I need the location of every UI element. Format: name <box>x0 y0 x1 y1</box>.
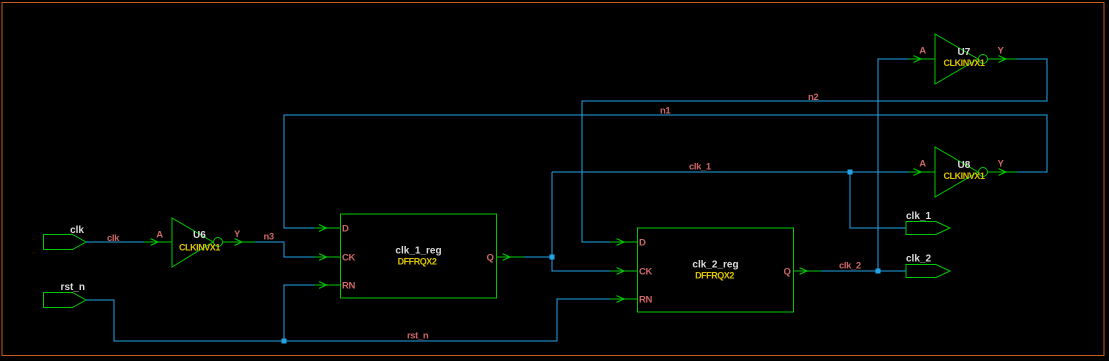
U7 output bubble <box>979 55 988 64</box>
svg-text:RN: RN <box>342 281 355 292</box>
svg-text:n2: n2 <box>808 92 818 103</box>
svg-text:clk_2: clk_2 <box>906 254 931 265</box>
svg-text:CLKINVX1: CLKINVX1 <box>944 171 985 181</box>
input port rst_n <box>44 282 87 308</box>
output port clk_1 <box>906 211 950 235</box>
svg-text:D: D <box>342 224 349 235</box>
clk_1_reg body <box>341 214 497 298</box>
svg-text:clk_1: clk_1 <box>906 211 931 222</box>
wire net rst_n: port rst_n to clk_2_reg.RN <box>86 299 610 341</box>
wire net clk_1 vertical through junction down to CK branch <box>552 172 610 271</box>
U7 pin A stub and arrow <box>909 58 935 60</box>
wire net clk_1 branch to output port clk_1 <box>850 172 906 228</box>
svg-text:D: D <box>639 238 646 249</box>
svg-text:CK: CK <box>639 267 652 278</box>
clk_2_reg body <box>638 228 794 312</box>
inverter U7 CLKINVX1 <box>909 34 1017 84</box>
svg-text:Q: Q <box>487 253 494 264</box>
svg-text:CLKINVX1: CLKINVX1 <box>944 58 985 68</box>
inverter U6 CLKINVX1 <box>144 218 255 267</box>
DFF clk_1_reg DFFRQX2 <box>314 214 524 298</box>
U8 triangle body <box>935 147 978 197</box>
svg-text:clk_2: clk_2 <box>839 261 861 272</box>
wire net rst_n branch up to clk_1_reg.RN <box>284 285 314 341</box>
svg-text:U8: U8 <box>958 160 971 171</box>
wire net n1 horizontal run from U8.Y <box>284 115 1047 228</box>
svg-text:Q: Q <box>784 267 791 278</box>
svg-text:U7: U7 <box>958 47 971 58</box>
svg-text:DFFRQX2: DFFRQX2 <box>398 257 437 267</box>
clk_2_reg pin CK stub and arrow <box>610 270 638 272</box>
junction on net clk_1 at branch to port <box>848 170 853 175</box>
U8 pin A stub and arrow <box>909 171 935 173</box>
svg-text:n1: n1 <box>660 106 671 117</box>
wire net n3: U6.Y to clk_1_reg.CK <box>255 242 314 257</box>
wire net clk_2 vertical branch up to U7.A <box>878 59 909 271</box>
inverter U8 CLKINVX1 <box>909 147 1017 197</box>
svg-text:CK: CK <box>342 253 355 264</box>
junction on net rst_n <box>282 339 287 344</box>
clk_2_reg pin D stub and arrow <box>610 241 638 243</box>
svg-text:clk: clk <box>70 225 84 236</box>
U6 pin Y stub and arrow <box>223 241 255 243</box>
svg-text:CLKINVX1: CLKINVX1 <box>179 243 220 253</box>
svg-text:clk_1: clk_1 <box>689 162 712 173</box>
svg-text:A: A <box>919 159 926 170</box>
svg-text:A: A <box>919 46 926 57</box>
svg-text:RN: RN <box>639 295 652 306</box>
svg-text:clk_1_reg: clk_1_reg <box>395 246 441 257</box>
output port clk_2 <box>906 254 950 278</box>
U6 triangle body <box>172 218 213 267</box>
wire net clk_1: clk_1_reg.Q to junction <box>524 256 552 258</box>
svg-text:rst_n: rst_n <box>61 282 85 293</box>
wire net clk: port clk to U6.A <box>86 241 144 243</box>
clk_1_reg pin RN stub and arrow <box>314 284 341 286</box>
U7 triangle body <box>935 34 978 84</box>
svg-text:clk_2_reg: clk_2_reg <box>692 260 738 271</box>
clk_1_reg pin D stub and arrow <box>314 227 341 229</box>
svg-text:n3: n3 <box>264 232 274 243</box>
svg-text:clk: clk <box>107 233 120 244</box>
DFF clk_2_reg DFFRQX2 <box>610 228 821 312</box>
junction on net clk_1 at Q output <box>550 255 555 260</box>
U7 pin Y stub and arrow <box>988 58 1017 60</box>
clk_2_reg pin RN stub and arrow <box>610 298 638 300</box>
U6 output bubble <box>214 238 223 247</box>
U8 output bubble <box>979 168 988 177</box>
wire net n2 run from U7.Y to clk_2_reg.D <box>582 59 1047 242</box>
svg-text:U6: U6 <box>193 230 206 241</box>
junction on net clk_2 <box>876 269 881 274</box>
input port clk <box>44 225 87 250</box>
clk_2_reg pin Q stub and arrow <box>794 270 822 272</box>
svg-text:DFFRQX2: DFFRQX2 <box>695 271 734 281</box>
wire net clk_2: clk_2_reg.Q to output port clk_2 <box>821 270 906 272</box>
U8 pin Y stub and arrow <box>988 171 1017 173</box>
clk_1_reg pin CK stub and arrow <box>314 256 341 258</box>
svg-text:A: A <box>156 230 163 241</box>
U6 pin A stub and arrow <box>144 241 172 243</box>
clk_1_reg pin Q stub and arrow <box>497 256 525 258</box>
wire net clk_1 horizontal run to U8.A <box>552 171 909 173</box>
svg-text:rst_n: rst_n <box>407 331 429 342</box>
